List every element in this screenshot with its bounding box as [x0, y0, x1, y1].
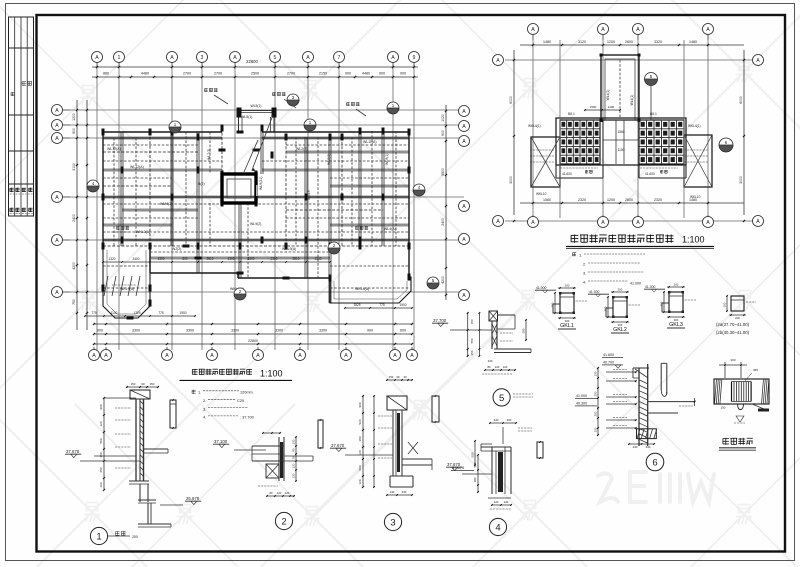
svg-text:GKL2: GKL2: [613, 327, 627, 333]
svg-text:3320: 3320: [654, 40, 662, 44]
svg-text:120: 120: [503, 365, 508, 369]
svg-text:1480: 1480: [689, 40, 697, 44]
svg-text:WL9(1): WL9(1): [385, 154, 389, 165]
svg-text:A: A: [55, 195, 59, 201]
svg-text:9: 9: [413, 55, 416, 61]
svg-text:240: 240: [646, 445, 651, 449]
svg-text:GKL3: GKL3: [669, 322, 683, 328]
svg-text:2400: 2400: [132, 257, 139, 261]
svg-text:150: 150: [99, 452, 103, 457]
svg-text:3: 3: [201, 55, 204, 61]
svg-text:750: 750: [72, 299, 76, 305]
svg-text:800: 800: [182, 257, 188, 261]
svg-text:WL12(A): WL12(A): [107, 147, 121, 151]
svg-text:900: 900: [379, 72, 385, 76]
svg-text:250: 250: [594, 411, 598, 416]
svg-text:2500: 2500: [251, 72, 259, 76]
svg-text:: 37.700: : 37.700: [240, 416, 254, 420]
svg-text:WKL4(1): WKL4(1): [688, 124, 701, 128]
svg-text:6000: 6000: [509, 96, 513, 104]
svg-text:80: 80: [269, 491, 273, 495]
svg-text:300: 300: [604, 306, 608, 311]
svg-text:3000: 3000: [739, 176, 743, 184]
svg-text:WL4(A): WL4(A): [384, 227, 396, 231]
svg-text:40: 40: [403, 375, 407, 379]
svg-text:A: A: [393, 353, 397, 359]
svg-text:120: 120: [504, 500, 509, 504]
svg-text:900: 900: [441, 130, 445, 136]
svg-text:A: A: [55, 290, 59, 296]
svg-text:GKL1: GKL1: [560, 323, 574, 329]
svg-text:1:100: 1:100: [260, 369, 283, 379]
svg-text:300: 300: [660, 301, 664, 306]
svg-text:37.678: 37.678: [66, 449, 80, 454]
svg-text:250: 250: [470, 350, 474, 355]
svg-text:80: 80: [487, 365, 491, 369]
svg-text:120: 120: [292, 473, 296, 478]
svg-text:500: 500: [522, 328, 526, 333]
svg-text:A: A: [706, 220, 710, 226]
svg-text:WKL9(A): WKL9(A): [120, 287, 134, 291]
svg-text:A: A: [531, 220, 535, 226]
svg-text:A: A: [55, 238, 59, 244]
svg-text:WKL9(A): WKL9(A): [282, 247, 296, 251]
svg-text:B8.1: B8.1: [568, 112, 575, 116]
svg-text:5900: 5900: [441, 168, 445, 176]
svg-text:240: 240: [494, 418, 499, 422]
svg-text:1480: 1480: [689, 198, 697, 202]
svg-text:1100: 1100: [111, 311, 118, 315]
svg-text:120: 120: [494, 500, 499, 504]
svg-text:1200: 1200: [607, 40, 615, 44]
svg-text:90: 90: [396, 375, 400, 379]
svg-text:3300: 3300: [186, 329, 194, 333]
svg-text:WKL10: WKL10: [536, 192, 547, 196]
svg-text:120: 120: [99, 421, 103, 426]
svg-text:250: 250: [132, 535, 138, 539]
svg-text:A: A: [391, 55, 395, 61]
svg-text:41.000: 41.000: [589, 290, 599, 294]
svg-text:380: 380: [358, 436, 362, 441]
svg-text:4200: 4200: [441, 276, 445, 284]
svg-text:1300: 1300: [270, 257, 277, 261]
svg-text:1325: 1325: [133, 311, 140, 315]
svg-text:A: A: [531, 27, 535, 33]
svg-text:4: 4: [495, 522, 500, 533]
svg-text:A: A: [165, 353, 169, 359]
svg-text:500: 500: [473, 462, 477, 467]
svg-text:WL9(2): WL9(2): [327, 154, 331, 165]
svg-text:WL9(2): WL9(2): [250, 222, 261, 226]
svg-text:WL12(A): WL12(A): [130, 165, 144, 169]
svg-text:120: 120: [277, 491, 282, 495]
svg-text:1320: 1320: [108, 257, 115, 261]
svg-text:41.600: 41.600: [603, 353, 614, 357]
svg-text:A: A: [298, 353, 302, 359]
svg-text:2320: 2320: [578, 198, 586, 202]
svg-text:1300: 1300: [227, 257, 234, 261]
svg-text:300: 300: [730, 358, 735, 362]
svg-text:2510: 2510: [206, 257, 213, 261]
svg-text:120: 120: [495, 365, 500, 369]
svg-text:1.: 1.: [198, 390, 201, 395]
svg-text:WKL4(1): WKL4(1): [528, 124, 541, 128]
svg-text:5: 5: [274, 55, 277, 61]
svg-text:900: 900: [367, 329, 373, 333]
svg-text:900: 900: [72, 128, 76, 134]
svg-text:41.600: 41.600: [562, 172, 572, 176]
svg-text:150: 150: [594, 371, 598, 376]
svg-text:80: 80: [292, 448, 296, 452]
svg-text:3300: 3300: [247, 257, 254, 261]
svg-text:3120: 3120: [578, 40, 586, 44]
svg-text:2: 2: [281, 516, 286, 527]
svg-text:4.: 4.: [203, 415, 206, 420]
svg-text:A: A: [462, 293, 466, 299]
svg-text:A: A: [756, 58, 760, 64]
svg-text:150: 150: [470, 319, 474, 324]
svg-text:2400: 2400: [72, 214, 76, 222]
svg-text:240: 240: [633, 445, 638, 449]
svg-text:A: A: [756, 219, 760, 225]
svg-text:4480: 4480: [141, 72, 149, 76]
svg-text:2150: 2150: [319, 72, 327, 76]
svg-text:880: 880: [103, 72, 109, 76]
svg-text:A: A: [95, 55, 99, 61]
svg-text:WL5(1): WL5(1): [241, 115, 252, 119]
svg-text:A: A: [601, 220, 605, 226]
svg-text:A: A: [496, 219, 500, 225]
svg-text:1480: 1480: [543, 40, 551, 44]
svg-text:200: 200: [618, 288, 623, 292]
svg-text:1020: 1020: [441, 114, 445, 122]
svg-text:120: 120: [285, 491, 290, 495]
svg-text:70: 70: [292, 456, 296, 460]
svg-text:1100: 1100: [608, 105, 615, 109]
svg-text:4480: 4480: [362, 72, 370, 76]
svg-text:2600: 2600: [625, 40, 633, 44]
svg-text:40.300: 40.300: [576, 402, 587, 406]
svg-text:500: 500: [99, 438, 103, 443]
svg-text:A: A: [462, 109, 466, 115]
svg-text:2.: 2.: [583, 263, 586, 267]
svg-text:200: 200: [674, 283, 679, 287]
svg-text:550: 550: [470, 338, 474, 343]
svg-text:A: A: [170, 55, 174, 61]
svg-text:A: A: [410, 353, 414, 359]
svg-text:365: 365: [753, 368, 758, 372]
svg-text:A: A: [462, 237, 466, 243]
svg-text:120mm.: 120mm.: [240, 391, 254, 395]
svg-text:WKL9: WKL9: [307, 190, 311, 200]
svg-text:(2b(40.30~41.00): (2b(40.30~41.00): [716, 330, 750, 335]
svg-text:2320: 2320: [654, 198, 662, 202]
svg-text:WJ(2): WJ(2): [172, 247, 181, 251]
svg-text:240: 240: [488, 359, 493, 363]
svg-text:1300: 1300: [157, 257, 164, 261]
svg-text:A: A: [496, 58, 500, 64]
svg-text:1300: 1300: [314, 257, 321, 261]
svg-text:1:100: 1:100: [682, 235, 705, 245]
svg-text:200: 200: [565, 284, 570, 288]
svg-text:6: 6: [652, 457, 657, 468]
svg-text:WL9(21): WL9(21): [259, 177, 263, 190]
svg-text:1: 1: [96, 531, 101, 542]
svg-text:A: A: [233, 55, 237, 61]
svg-text:120: 120: [292, 463, 296, 468]
svg-text:380: 380: [473, 477, 477, 482]
svg-text:2700: 2700: [214, 72, 222, 76]
svg-text:WM4(2): WM4(2): [160, 202, 172, 206]
svg-text:WL2(2): WL2(2): [296, 147, 307, 151]
svg-text:350: 350: [594, 391, 598, 396]
svg-text:150: 150: [150, 382, 155, 386]
svg-text:2700: 2700: [183, 72, 191, 76]
svg-text:900: 900: [345, 72, 351, 76]
svg-text:3: 3: [390, 517, 395, 528]
svg-text:1: 1: [118, 55, 121, 61]
svg-text:41.000: 41.000: [645, 285, 655, 289]
svg-text:B(2): B(2): [198, 182, 205, 186]
svg-text:3000: 3000: [509, 176, 513, 184]
svg-text:WL7(2): WL7(2): [207, 149, 211, 160]
svg-text:37.670: 37.670: [447, 462, 461, 467]
svg-text:A: A: [55, 108, 59, 114]
svg-text:WL4(1): WL4(1): [630, 95, 634, 106]
svg-text:A: A: [210, 353, 214, 359]
svg-text:C25: C25: [237, 399, 244, 403]
svg-text:340: 340: [402, 490, 407, 494]
svg-text:1560: 1560: [617, 130, 624, 134]
svg-text:4.: 4.: [583, 281, 586, 285]
svg-text:1.: 1.: [579, 254, 582, 258]
svg-text:3300: 3300: [275, 329, 283, 333]
svg-text:41.000: 41.000: [630, 282, 641, 286]
svg-text:3100: 3100: [72, 163, 76, 171]
svg-text:650: 650: [99, 467, 103, 472]
svg-text:775: 775: [91, 311, 97, 315]
svg-text:3.: 3.: [203, 406, 206, 411]
svg-text:150: 150: [594, 427, 598, 432]
svg-text:3300: 3300: [231, 329, 239, 333]
svg-text:150: 150: [721, 406, 726, 410]
svg-text:A: A: [55, 136, 59, 142]
svg-text:3300: 3300: [132, 329, 140, 333]
svg-text:WL4(1): WL4(1): [606, 90, 610, 101]
svg-text:775: 775: [379, 303, 385, 307]
svg-text:150: 150: [389, 375, 394, 379]
svg-text:A: A: [706, 27, 710, 33]
svg-text:900: 900: [358, 402, 362, 407]
svg-text:A: A: [601, 27, 605, 33]
svg-text:2400: 2400: [441, 218, 445, 226]
svg-text:900: 900: [99, 404, 103, 409]
svg-text:5: 5: [499, 393, 504, 404]
svg-text:2510: 2510: [292, 257, 299, 261]
svg-text:200: 200: [507, 418, 512, 422]
svg-text:A: A: [344, 353, 348, 359]
svg-text:600: 600: [400, 329, 406, 333]
svg-text:A: A: [462, 139, 466, 145]
svg-text:37.100: 37.100: [214, 439, 228, 444]
svg-text:1900: 1900: [179, 311, 186, 315]
svg-text:WL5(1): WL5(1): [250, 104, 261, 108]
svg-text:6000: 6000: [739, 96, 743, 104]
svg-text:A: A: [104, 353, 108, 359]
svg-text:2700: 2700: [287, 72, 295, 76]
svg-text:A: A: [462, 124, 466, 130]
svg-text:150: 150: [131, 382, 136, 386]
svg-text:26.678: 26.678: [186, 496, 200, 501]
svg-text:2600: 2600: [625, 198, 633, 202]
svg-text:1200: 1200: [607, 198, 615, 202]
svg-text:A: A: [256, 353, 260, 359]
svg-text:40.700: 40.700: [603, 361, 614, 365]
svg-text:1100: 1100: [618, 148, 625, 152]
svg-text:A: A: [92, 353, 96, 359]
svg-text:41.600: 41.600: [645, 172, 655, 176]
svg-text:200: 200: [735, 316, 740, 320]
svg-text:3.: 3.: [583, 272, 586, 276]
svg-text:37.670: 37.670: [331, 443, 345, 448]
svg-text:(2a(37.70~41.00): (2a(37.70~41.00): [716, 322, 750, 327]
svg-text:900: 900: [97, 329, 103, 333]
svg-text:41.000: 41.000: [576, 394, 587, 398]
svg-text:37.700: 37.700: [433, 318, 447, 323]
svg-text:41.000: 41.000: [536, 286, 546, 290]
svg-text:WL11(A): WL11(A): [363, 140, 377, 144]
svg-text:A: A: [636, 27, 640, 33]
svg-text:A: A: [306, 55, 310, 61]
svg-text:2.: 2.: [203, 398, 206, 403]
svg-text:WKL4(A): WKL4(A): [355, 287, 369, 291]
svg-text:775: 775: [158, 311, 164, 315]
svg-text:300: 300: [551, 302, 555, 307]
svg-text:22800: 22800: [246, 59, 258, 64]
svg-text:900: 900: [400, 72, 406, 76]
svg-text:WKL2(A): WKL2(A): [136, 230, 150, 234]
svg-text:A: A: [55, 123, 59, 129]
svg-text:1500: 1500: [590, 105, 597, 109]
svg-text:520: 520: [358, 419, 362, 424]
svg-text:22800: 22800: [248, 339, 258, 343]
svg-text:1900: 1900: [399, 303, 406, 307]
svg-text:4200: 4200: [72, 262, 76, 270]
svg-text:1560: 1560: [543, 198, 551, 202]
svg-text:150: 150: [292, 439, 296, 444]
svg-text:500: 500: [358, 465, 362, 470]
svg-text:500: 500: [471, 452, 475, 457]
svg-text:A: A: [462, 204, 466, 210]
svg-text:120: 120: [358, 479, 362, 484]
svg-text:1200: 1200: [72, 113, 76, 121]
svg-text:140: 140: [390, 490, 395, 494]
svg-text:7: 7: [338, 55, 341, 61]
svg-text:90: 90: [141, 382, 145, 386]
svg-text:3300: 3300: [319, 329, 327, 333]
svg-text:A: A: [636, 220, 640, 226]
svg-text:160: 160: [99, 482, 103, 487]
svg-text:300: 300: [723, 302, 727, 307]
svg-text:2825: 2825: [353, 303, 360, 307]
